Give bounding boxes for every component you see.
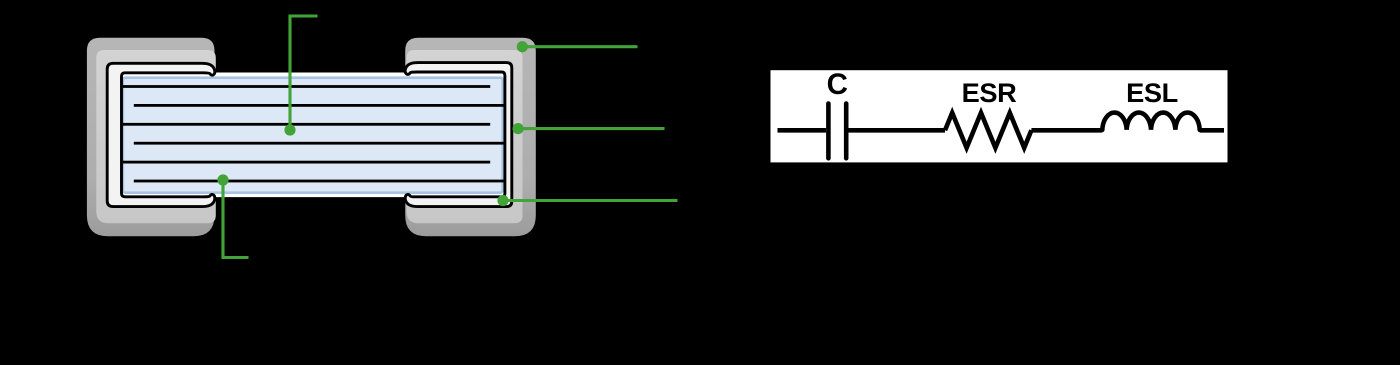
svg-text:ESL: ESL (1126, 77, 1178, 108)
callout dot: right-middle (513, 123, 524, 134)
electrode E4 (right-connected) (134, 142, 505, 145)
wire: left lead (778, 128, 827, 133)
equivalent-circuit panel (771, 70, 1228, 162)
electrode E1 (left-connected) (123, 85, 490, 88)
callout dot: right-top (517, 41, 528, 52)
svg-text:ESR: ESR (962, 77, 1017, 108)
right termination cap (C-channel) (405, 63, 512, 207)
electrode E3 (left-connected) (123, 123, 490, 126)
inductor ESL (4 loops) (1102, 113, 1199, 130)
right termination inner plating (407, 50, 523, 223)
right termination outer plating (405, 38, 536, 236)
svg-text:C: C (827, 68, 848, 101)
electrode E2 (right-connected) (134, 104, 505, 107)
left termination cap (C-channel) (107, 63, 215, 206)
left termination outer plating (87, 38, 215, 236)
callout leader: top (to inner electrode, dot at center) (290, 16, 318, 130)
dielectric block (blue) (123, 78, 503, 193)
capacitor C (plates) (828, 104, 846, 159)
electrode E5 (left-connected) (123, 161, 490, 164)
wire: capacitor to resistor (849, 128, 946, 133)
callout leader: bottom (to electrode E6) (223, 180, 249, 258)
ceramic chip body (white) (108, 71, 512, 198)
left termination inner plating (96, 50, 216, 223)
electrode E6 (right-connected) (134, 180, 505, 183)
callout dot: right-bottom (497, 195, 508, 206)
resistor ESR (zigzag) (945, 113, 1031, 148)
callout leader: right-bottom (to termination cap) (503, 199, 678, 202)
callout dot: bottom (217, 174, 228, 185)
wire: right lead (1200, 128, 1224, 133)
wire: resistor to inductor (1031, 128, 1102, 133)
callout leader: right-middle (to inner plating) (518, 127, 664, 130)
callout leader: right-top (to outer plating) (522, 45, 637, 48)
callout dot: top (284, 124, 295, 135)
